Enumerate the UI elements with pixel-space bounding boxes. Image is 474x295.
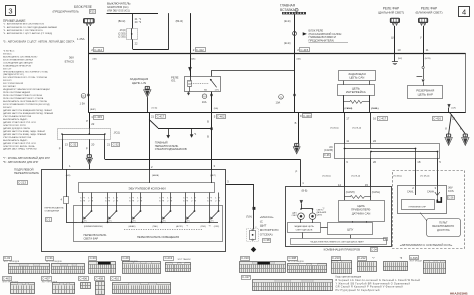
svg-text:36V ACC: 36V ACC — [3, 52, 12, 55]
svg-text:(ПРЕДОХРАНИТЕЛЬ: (ПРЕДОХРАНИТЕЛЬ — [53, 9, 79, 13]
svg-text:10: 10 — [397, 48, 401, 52]
svg-text:ЖГУТ ПРОВОДОВ: ЖГУТ ПРОВОДОВ — [46, 261, 62, 263]
svg-text:РЕЛЕ ОБОГРЕВА ЗАДНЕЙ: РЕЛЕ ОБОГРЕВА ЗАДНЕЙ — [3, 91, 31, 94]
svg-text:(ЗГ): (ЗГ) — [84, 221, 87, 223]
svg-text:Коды цветов проводов: Коды цветов проводов — [336, 275, 362, 278]
svg-text:*1 : АВТОМОБИЛИ БЕЗ СИСТЕМЫ KO: *1 : АВТОМОБИЛИ БЕЗ СИСТЕМЫ KOS — [3, 23, 45, 26]
svg-text:C-415: C-415 — [300, 48, 308, 52]
svg-text:*8 : АВТОМОБИЛИ ДЛЯ КНР: *8 : АВТОМОБИЛИ ДЛЯ КНР — [3, 160, 38, 164]
svg-text:C-403: C-403 — [94, 115, 102, 119]
svg-text:(БАТА): (БАТА) — [152, 174, 159, 177]
svg-text:В: В — [207, 135, 209, 139]
svg-text:ЭБУ РУЛЕВОЙ КОЛОНКИ: ЭБУ РУЛЕВОЙ КОЛОНКИ — [128, 187, 165, 191]
svg-text:*8: *8 — [209, 225, 211, 227]
svg-text:БЛОК УПРАВЛЕНИЯ СТОПЛЕРОВ (36V: БЛОК УПРАВЛЕНИЯ СТОПЛЕРОВ (36V КОЗД) — [3, 103, 50, 106]
svg-text:ДАТЧИК ЧАСТОТЫ ВРАЩ. ЗАДН. ЛЕВ: ДАТЧИК ЧАСТОТЫ ВРАЩ. ЗАДН. ЛЕВЫЙ — [3, 130, 45, 133]
svg-text:ЖГУТ ПРОВОДОВ: ЖГУТ ПРОВОДОВ — [288, 261, 304, 263]
svg-text:В: В — [207, 119, 209, 123]
svg-text:ЖГУТ ПАНЕЛИ: ЖГУТ ПАНЕЛИ — [178, 258, 192, 261]
svg-text:20: 20 — [91, 142, 95, 146]
svg-text:СВЕТОДИОДОВ: СВЕТОДИОДОВ — [296, 230, 313, 232]
svg-text:3: 3 — [8, 7, 12, 16]
svg-text:(ВЧР): (ВЧР) — [90, 109, 96, 111]
svg-text:(CANL): (CANL) — [372, 191, 381, 194]
svg-text:13: 13 — [65, 142, 69, 146]
svg-text:ЖГУТ ПРОВОДОВ: ЖГУТ ПРОВОДОВ — [42, 281, 58, 283]
svg-text:C-30: C-30 — [90, 256, 97, 260]
svg-text:(AUTO): (AUTO) — [176, 225, 183, 228]
svg-text:УЗЕЛ РЫЧАГА СЕЛЕКТОРА: УЗЕЛ РЫЧАГА СЕЛЕКТОРА — [3, 115, 31, 118]
svg-text:ВЫКЛЮЧАТЕЛЬ РАДИО: ВЫКЛЮЧАТЕЛЬ РАДИО — [3, 118, 28, 121]
svg-text:(Г)(Ч): (Г)(Ч) — [246, 216, 252, 219]
svg-text:ВЫКЛЮЧАТЕЛЬ СИСТЕМА ROBO: ВЫКЛЮЧАТЕЛЬ СИСТЕМА ROBO — [3, 55, 38, 58]
svg-text:(Ш-Ж): (Ш-Ж) — [284, 21, 291, 23]
svg-text:C-407: C-407 — [42, 276, 50, 280]
svg-text:ПУЛЬТ: ПУЛЬТ — [439, 221, 448, 225]
svg-text:ИЛИ ЭБУ OSS (IG1): ИЛИ ЭБУ OSS (IG1) — [107, 10, 130, 13]
svg-text:ДАТЧИК ЧАСТОТЫ ВРАЩ. ЗАДН. ПРА: ДАТЧИК ЧАСТОТЫ ВРАЩ. ЗАДН. ПРАВЫЙ — [3, 133, 47, 136]
svg-text:IG1: IG1 — [171, 79, 176, 83]
svg-text:ПРЕДОХРАНИТЕЛИ): ПРЕДОХРАНИТЕЛИ) — [309, 39, 335, 43]
svg-text:ЖГУТ КРЫШИ: ЖГУТ КРЫШИ — [410, 261, 423, 263]
svg-text:СВЕТ: СВЕТ — [292, 215, 298, 217]
svg-text:(ЗГ): (ЗГ) — [211, 221, 214, 223]
svg-text:УЗЕЛ РЫЧАГА СЕЛЕКТОРА: УЗЕЛ РЫЧАГА СЕЛЕКТОРА — [3, 136, 31, 139]
svg-text:(DIMMER/PASSING): (DIMMER/PASSING) — [84, 225, 103, 228]
svg-text:C-402: C-402 — [217, 115, 225, 119]
svg-text:ОТСЕКА): ОТСЕКА) — [260, 232, 273, 236]
svg-text:P: P — [296, 170, 298, 174]
svg-text:ВЫКЛЮЧАТЕЛЬ: ВЫКЛЮЧАТЕЛЬ — [107, 2, 131, 6]
svg-text:МОТОРНОГО: МОТОРНОГО — [260, 228, 279, 232]
svg-text:C-26: C-26 — [448, 196, 454, 199]
svg-text:4: 4 — [385, 239, 386, 241]
svg-text:*5 : АВТОМОБИЛИ С ЦЛСТ: АВТОМ.: *5 : АВТОМОБИЛИ С ЦЛСТ: АВТОМ. ЛЕГКИЙ ДВ… — [3, 40, 75, 44]
svg-text:РЕЛЕ ОБОГРЕВА ВЕТРОВОГО СТЕКЛА: РЕЛЕ ОБОГРЕВА ВЕТРОВОГО СТЕКЛА — [3, 97, 44, 100]
svg-text:ДОСТУПА: ДОСТУПА — [437, 228, 450, 232]
svg-text:ETACS: ETACS — [65, 59, 74, 63]
svg-text:C-310: C-310 — [241, 256, 249, 260]
svg-text:C-406: C-406 — [79, 276, 87, 280]
svg-text:ИНДИКАТОР УМНИЧЕСКОЙ СИГНАЛИЗА: ИНДИКАТОР УМНИЧЕСКОЙ СИГНАЛИЗАЦИИ — [3, 88, 50, 91]
svg-text:11: 11 — [426, 48, 429, 52]
svg-text:36V ЕУЗ: 36V ЕУЗ — [3, 80, 12, 82]
svg-text:16: 16 — [373, 117, 377, 121]
svg-text:«АВТОМОБИЛИ С СИСТЕМОЙ KOS»: «АВТОМОБИЛИ С СИСТЕМОЙ KOS» — [400, 243, 453, 247]
svg-text:(ЧЛЗ): (ЧЛЗ) — [425, 58, 431, 60]
svg-text:C-417: C-417 — [242, 275, 250, 279]
svg-text:1 5A: 1 5A — [80, 101, 86, 105]
svg-text:(ЧБ): (ЧБ) — [214, 108, 219, 110]
svg-text:ВЫКЛЮЧАТЕЛЬ ОБОГРЕВА ВЕТР. СТЕ: ВЫКЛЮЧАТЕЛЬ ОБОГРЕВА ВЕТР. СТЕКЛА — [3, 100, 47, 103]
svg-text:C-408: C-408 — [96, 276, 104, 280]
svg-text:СВЕТА ФАР: СВЕТА ФАР — [84, 237, 99, 241]
svg-text:C-213: C-213 — [165, 256, 173, 260]
svg-text:C-412: C-412 — [94, 48, 102, 52]
svg-text:(CANH): (CANH) — [345, 107, 353, 110]
svg-text:10A: 10A — [202, 100, 207, 104]
svg-text:ЖГУТ ПРОВОДОВ: ЖГУТ ПРОВОДОВ — [122, 261, 138, 263]
svg-text:ПЕРЕКЛЮЧАТЕЛЬ: ПЕРЕКЛЮЧАТЕЛЬ — [45, 207, 65, 210]
svg-text:ОСВЕЩЕНИЙ: ОСВЕЩЕНИЙ — [45, 210, 60, 213]
svg-text:(C-305): (C-305) — [118, 37, 126, 39]
svg-text:В: В — [295, 121, 297, 125]
svg-text:БЛОК УПРАВЛЕНИЯ СИГНАЛ: БЛОК УПРАВЛЕНИЯ СИГНАЛ — [3, 58, 34, 61]
svg-text:(ДАЛЬНИЙ СВЕТ): (ДАЛЬНИЙ СВЕТ) — [378, 11, 404, 15]
svg-text:ПЕРЕКЛЮЧАТЕЛЬ ОСВЕЩЕНИЯ: ПЕРЕКЛЮЧАТЕЛЬ ОСВЕЩЕНИЯ — [137, 235, 179, 239]
svg-text:(ЧЛ): (ЧЛ) — [451, 107, 456, 109]
svg-text:ПЕРЕКЛЮЧАТЕЛЬ: ПЕРЕКЛЮЧАТЕЛЬ — [155, 144, 179, 148]
svg-text:KOS: KOS — [448, 189, 454, 193]
svg-text:ПРЕОБРАЗОВАТЕЛЬ ПОСТОЯННОГО ТО: ПРЕОБРАЗОВАТЕЛЬ ПОСТОЯННОГО ТОКА — [3, 70, 48, 73]
svg-text:(ЧБ): (ЧБ) — [297, 58, 302, 60]
svg-text:РЕЛЕ ОБОГРЕВА РУЛЕВОГО КОЛЕСА: РЕЛЕ ОБОГРЕВА РУЛЕВОГО КОЛЕСА — [3, 94, 42, 97]
svg-text:«ЗА ДИСПЛЕЙ НЕИСПРАВНОСТЬ СВЕТ: «ЗА ДИСПЛЕЙ НЕИСПРАВНОСТЬ СВЕТОДИОДНЫХ Л… — [310, 241, 364, 244]
svg-text:F23: F23 — [90, 9, 95, 13]
svg-text:(2ND): (2ND) — [201, 226, 207, 228]
svg-text:(ЗГ): (ЗГ) — [187, 221, 190, 223]
svg-text:11: 11 — [346, 139, 349, 143]
svg-text:C-04: C-04 — [371, 248, 377, 252]
svg-text:(CAN5): (CAN5) — [324, 148, 333, 152]
svg-text:21: 21 — [151, 115, 155, 119]
svg-text:У: У — [420, 36, 422, 40]
svg-text:*6 36V ACC: *6 36V ACC — [3, 49, 15, 52]
svg-text:C-416: C-416 — [433, 117, 441, 121]
svg-text:(НЕТ): (НЕТ) — [210, 175, 216, 177]
svg-text:ГЛАВНЫЙ: ГЛАВНЫЙ — [155, 140, 168, 144]
svg-text:C-405: C-405 — [3, 276, 11, 280]
svg-text:(ЧБ): (ЧБ) — [93, 58, 98, 60]
svg-text:22: 22 — [373, 139, 377, 143]
svg-text:ЦЕПЬ CAN: ЦЕПЬ CAN — [349, 76, 364, 80]
svg-text:(ЗГ): (ЗГ) — [133, 221, 136, 223]
svg-text:ЗАЖИГАНИЯ (IG1): ЗАЖИГАНИЯ (IG1) — [107, 6, 129, 9]
svg-text:ЦЕПЬ: ЦЕПЬ — [317, 214, 323, 216]
svg-text:(Т) (В-Ч): (Т) (В-Ч) — [393, 175, 402, 177]
svg-text:(CANL): (CANL) — [371, 107, 379, 110]
svg-text:36V ЗЕРКАЛ: 36V ЗЕРКАЛ — [3, 85, 16, 88]
svg-text:18: 18 — [417, 160, 421, 164]
svg-text:(ВК-Ж): (ВК-Ж) — [118, 21, 126, 23]
svg-text:ДАТЧИК УГЛА ПОВОР. РУЛ. КОЛ.: ДАТЧИК УГЛА ПОВОР. РУЛ. КОЛ. — [3, 142, 37, 145]
svg-text:P: P — [86, 119, 88, 123]
svg-text:C-213: C-213 — [332, 256, 340, 260]
svg-text:(Т) (Ж-Ч): (Т) (Ж-Ч) — [420, 175, 429, 177]
svg-text:(Т) (В-Ч): (Т) (В-Ч) — [322, 175, 331, 177]
svg-text:C-212: C-212 — [358, 256, 366, 260]
svg-text:36V ЭЛЕКТРИЧЕСКОГО СТОЯН. ТОРМ: 36V ЭЛЕКТРИЧЕСКОГО СТОЯН. ТОРМОЗА — [3, 76, 47, 79]
svg-text:ДАТЧИК УГЛА ПОВОР. РУЛ. КОЛ.: ДАТЧИК УГЛА ПОВОР. РУЛ. КОЛ. — [3, 121, 37, 124]
svg-text:ДАТЧИК ЧАСТ. ВРАЩ. ТОРМОЗЫ: ДАТЧИК ЧАСТ. ВРАЩ. ТОРМОЗЫ — [3, 148, 37, 151]
svg-text:(Т) (Ж-Ч): (Т) (Ж-Ч) — [352, 128, 361, 130]
svg-text:*7 : КРОМЕ АВТОМОБИЛЕЙ ДЛЯ КНР: *7 : КРОМЕ АВТОМОБИЛЕЙ ДЛЯ КНР — [3, 156, 50, 160]
svg-text:ЭЛЕКТРОУСИЛ. ВЕРХН. ЛЮКА: ЭЛЕКТРОУСИЛ. ВЕРХН. ЛЮКА — [3, 145, 35, 148]
svg-text:(Л,Зк): (Л,Зк) — [152, 107, 158, 109]
svg-text:C-32: C-32 — [4, 256, 11, 260]
svg-text:1 25A: 1 25A — [77, 37, 85, 41]
svg-text:КОМБИНАЦИЯ ПРИБОРОВ: КОМБИНАЦИЯ ПРИБОРОВ — [3, 64, 31, 67]
svg-text:C-31: C-31 — [47, 256, 54, 260]
svg-text:C-308: C-308 — [289, 256, 297, 260]
svg-text:C-417: C-417 — [157, 115, 165, 119]
svg-text:КОМБИНАЦИЯ ПРИБОРОВ: КОМБИНАЦИЯ ПРИБОРОВ — [324, 248, 361, 252]
svg-text:22: 22 — [91, 122, 95, 126]
svg-text:(TAIL): (TAIL) — [153, 225, 159, 228]
svg-text:ПЕРЕКЛЮЧАТЕЛЬ: ПЕРЕКЛЮЧАТЕЛЬ — [14, 171, 39, 175]
svg-text:ЦЕПЬ: ЦЕПЬ — [357, 204, 365, 208]
svg-text:(Т) (В-Ч): (Т) (В-Ч) — [330, 128, 339, 130]
svg-text:PU Пурпурный SI Серебрист: PU Пурпурный SI Серебристый — [336, 289, 381, 292]
svg-text:C: C — [83, 94, 85, 98]
svg-text:(В-Б): (В-Б) — [302, 189, 308, 192]
svg-text:(HEAD): (HEAD) — [129, 225, 136, 228]
svg-text:*3 : АВТОМОБИЛИ С СИСТЕМОЙ KOS: *3 : АВТОМОБИЛИ С СИСТЕМОЙ KOS — [3, 29, 43, 32]
svg-text:ЗАДАЮЩАЯ ЦЕПЬ: ЗАДАЮЩАЯ ЦЕПЬ — [294, 225, 314, 228]
svg-text:J/C: J/C — [329, 145, 333, 149]
svg-text:ПРИМЕЧАНИЕ: ПРИМЕЧАНИЕ — [3, 19, 25, 23]
svg-text:P: P — [59, 146, 61, 150]
svg-text:(ВК-Ж): (ВК-Ж) — [176, 21, 184, 23]
svg-text:10A: 10A — [276, 101, 281, 105]
svg-text:(Ш-Ж): (Ш-Ж) — [284, 43, 291, 45]
svg-text:(ЗГ): (ЗГ) — [163, 221, 166, 223]
svg-text:C-26: C-26 — [324, 153, 330, 157]
svg-text:ДАТЧИК ДОЖДЯ И СВЕТА: ДАТЧИК ДОЖДЯ И СВЕТА — [3, 127, 30, 130]
svg-text:C-2: C-2 — [46, 217, 51, 221]
svg-text:C-410: C-410 — [112, 276, 120, 280]
svg-text:(ЧБ): (ЧБ) — [191, 58, 196, 60]
svg-text:БЛОК РЕЛЕ: БЛОК РЕЛЕ — [74, 5, 92, 9]
svg-text:36V ACC: 36V ACC — [3, 106, 12, 109]
svg-text:ЩИТ: ЩИТ — [260, 224, 267, 228]
svg-text:*2 : АВТОМОБИЛИ СО СВЕТОДИОДНЫ: *2 : АВТОМОБИЛИ СО СВЕТОДИОДНЫМИ ФАРАМИ — [3, 26, 57, 29]
svg-text:C-412: C-412 — [196, 48, 204, 52]
svg-text:C-403: C-403 — [303, 114, 311, 118]
svg-text:J/C(1): J/C(1) — [114, 131, 121, 134]
svg-text:СОБЛЮДЕНИЕ ДИСТАНЦИИ: СОБЛЮДЕНИЕ ДИСТАНЦИИ — [3, 61, 33, 64]
svg-text:C-32: C-32 — [113, 142, 120, 146]
svg-text:ВЫКЛЮЧАТЕЛЬ РАДИО: ВЫКЛЮЧАТЕЛЬ РАДИО — [3, 139, 28, 142]
svg-text:36V ТОРМОЗЖНОЙ: 36V ТОРМОЗЖНОЙ — [3, 82, 24, 85]
svg-text:ПРИЕМНИК UHF: ПРИЕМНИК UHF — [409, 206, 427, 208]
svg-text:(БЛИЖНИЙ СВЕТ): (БЛИЖНИЙ СВЕТ) — [416, 11, 443, 15]
svg-text:СТЕКЛОПОДЪЕМНИКОВ: СТЕКЛОПОДЪЕМНИКОВ — [155, 147, 187, 151]
svg-text:ЦЕПЬ ФАР: ЦЕПЬ ФАР — [418, 93, 433, 97]
svg-text:21: 21 — [107, 142, 111, 146]
svg-text:ДАТЧИК ЧАСТОТЫ ВРАЩЕНИЯ ПЕРЕД.: ДАТЧИК ЧАСТОТЫ ВРАЩЕНИЯ ПЕРЕД. ПРАВЫЙ — [3, 112, 54, 115]
svg-text:Ш: Ш — [391, 36, 394, 40]
svg-text:ЖГУТ ПРОВОДОВ: ЖГУТ ПРОВОДОВ — [2, 281, 18, 283]
svg-text:ПЕРЕКЛЮЧАТЕЛЬ: ПЕРЕКЛЮЧАТЕЛЬ — [84, 233, 107, 237]
svg-text:ДАТЧИКА CAN: ДАТЧИКА CAN — [352, 212, 371, 216]
svg-text:CANL: CANL — [407, 190, 414, 193]
svg-text:(ЧК): (ЧК) — [398, 58, 402, 60]
svg-text:ВСТАВКА: ВСТАВКА — [280, 8, 296, 12]
svg-text:*7: *7 — [186, 225, 188, 227]
svg-text:20: 20 — [373, 160, 377, 164]
svg-text:ЖГУТ ПРОВОДОВ: ЖГУТ ПРОВОДОВ — [4, 261, 20, 263]
svg-text:(CANH): (CANH) — [346, 191, 355, 194]
svg-text:C-815: C-815 — [410, 256, 418, 260]
svg-text:БЕСКЛЮЧЕВОГО: БЕСКЛЮЧЕВОГО — [432, 224, 454, 228]
svg-text:(OFF): (OFF) — [214, 226, 220, 228]
svg-text:ЭЛЕКТРОУСИЛ. РУЛЯ: ЭЛЕКТРОУСИЛ. РУЛЯ — [3, 125, 26, 127]
svg-text:36V СУТ: 36V СУТ — [3, 68, 12, 70]
svg-text:J/C(2): J/C(2) — [119, 30, 125, 32]
svg-text:C-32: C-32 — [70, 142, 77, 146]
svg-text:*4 : АВТОМОБИЛИ С ЦЛСТ: АВТОМ.: *4 : АВТОМОБИЛИ С ЦЛСТ: АВТОМ. (ГР 103ЕД… — [3, 32, 52, 35]
svg-text:(Т) (Ж-Ч): (Т) (Ж-Ч) — [351, 175, 360, 177]
svg-text:CANH: CANH — [427, 190, 434, 193]
svg-text:(ЗАРЯДКИ ИГРУ КС): (ЗАРЯДКИ ИГРУ КС) — [3, 73, 24, 76]
svg-text:C-38: C-38 — [264, 238, 271, 242]
svg-text:(ЗГ): (ЗГ) — [109, 221, 112, 223]
svg-text:ЦПУ: ЦПУ — [347, 228, 353, 232]
svg-text:(C-303): (C-303) — [118, 33, 126, 35]
svg-text:C-417: C-417 — [379, 117, 387, 121]
svg-text:4: 4 — [462, 7, 466, 16]
svg-text:ДАТЧИК ЧАСТОТЫ ВРАЩЕНИЯ ПЕРЕД.: ДАТЧИК ЧАСТОТЫ ВРАЩЕНИЯ ПЕРЕД. ЛЕВЫЙ — [3, 109, 52, 112]
svg-text:(ЗГ): (ЗГ) — [215, 89, 219, 91]
svg-text:C-29: C-29 — [123, 256, 130, 260]
svg-text:ПРИЕМОПЕРЕ-: ПРИЕМОПЕРЕ- — [351, 208, 371, 212]
svg-text:C-213: C-213 — [18, 180, 26, 184]
svg-text:17: 17 — [346, 117, 350, 121]
svg-text:ЦЕПЬ LIN: ЦЕПЬ LIN — [132, 81, 146, 85]
svg-text:ГЛАВНАЯ: ГЛАВНАЯ — [280, 4, 296, 8]
svg-text:ИНТЕРФЕЙСА: ИНТЕРФЕЙСА — [346, 90, 366, 94]
svg-text:P: P — [86, 146, 88, 150]
svg-text:HKAJ021HB: HKAJ021HB — [450, 291, 468, 295]
svg-text:N: N — [204, 94, 206, 98]
